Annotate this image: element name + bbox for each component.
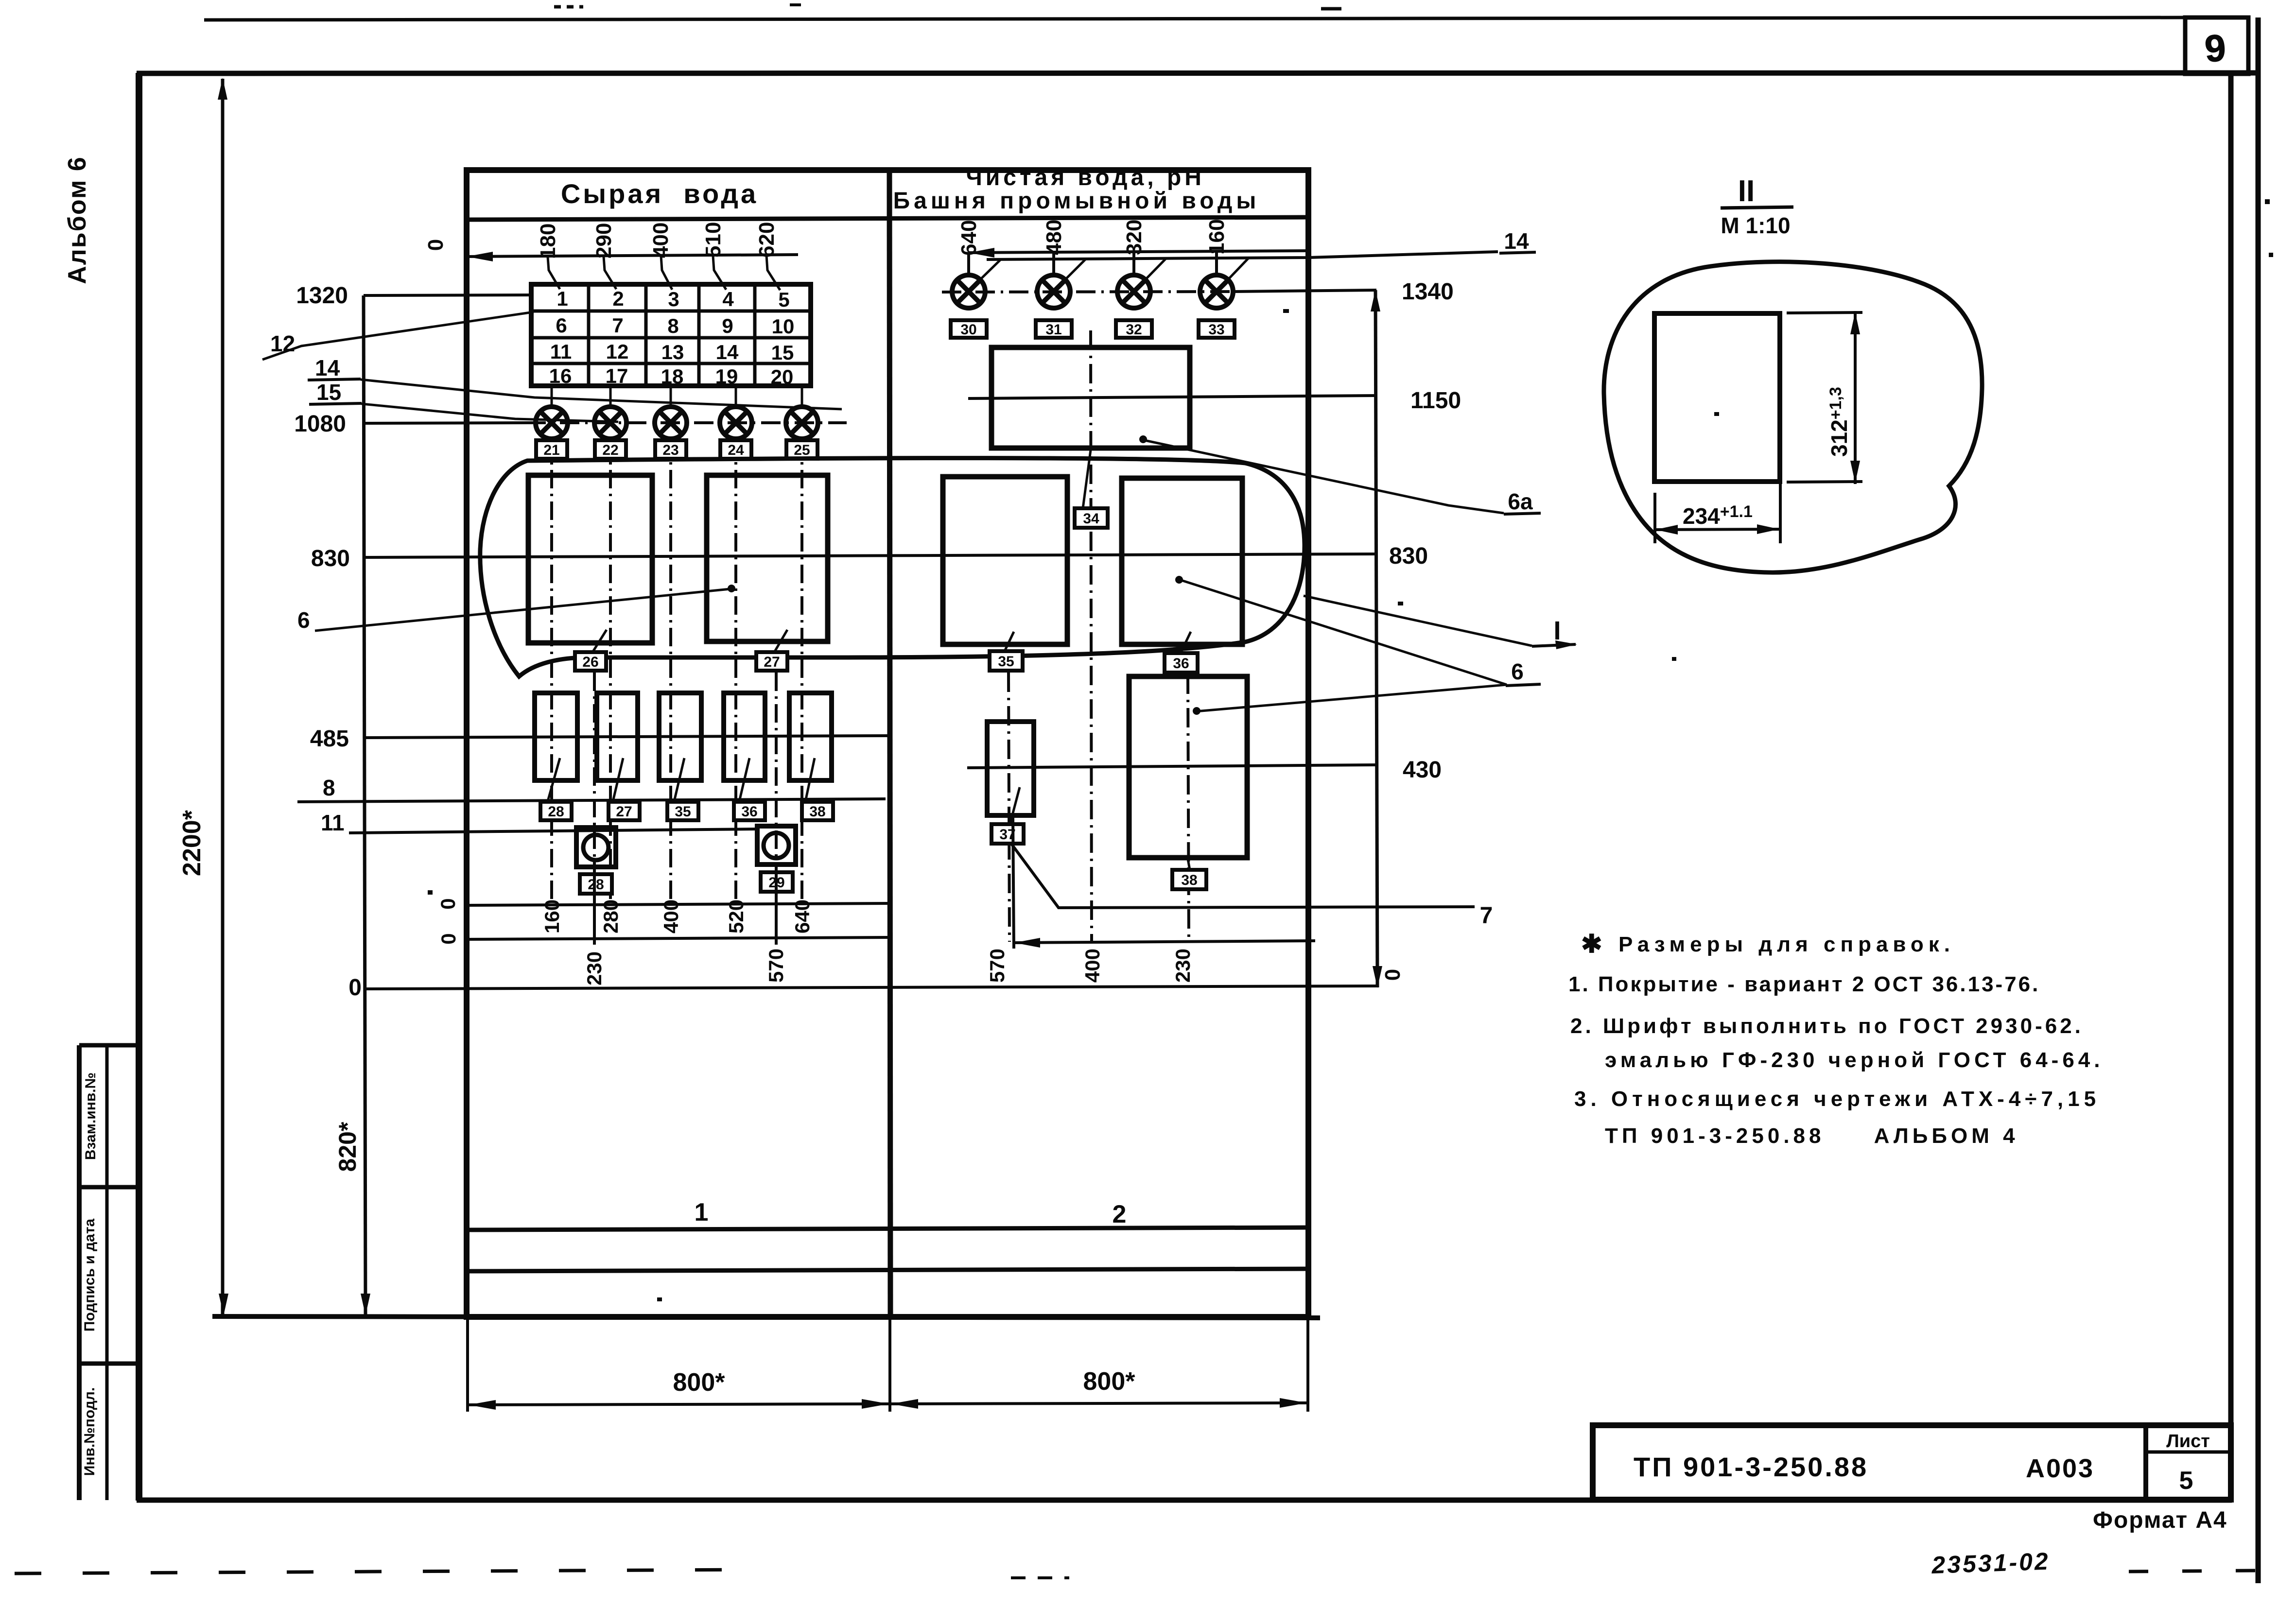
label box 37	[991, 824, 1024, 844]
rect 37	[987, 722, 1034, 815]
leader rect36 label	[1180, 632, 1191, 654]
page top border line	[204, 17, 2185, 20]
lamp L23	[655, 407, 687, 439]
ext line top	[1787, 312, 1862, 313]
svg-text:10: 10	[772, 315, 795, 338]
speck 8	[657, 1297, 662, 1301]
svg-text:0: 0	[348, 975, 362, 1001]
svg-text:1340: 1340	[1402, 279, 1454, 305]
leader 6a	[1142, 440, 1504, 513]
svg-text:830: 830	[1389, 543, 1428, 569]
bottom dim labels row1	[540, 899, 814, 985]
label box 30	[951, 320, 987, 338]
level line 0 across panels	[364, 986, 1377, 989]
small rect 4	[724, 693, 765, 780]
instrument rect 27	[707, 475, 828, 641]
leader 180 to cell1	[548, 257, 560, 289]
svg-text:830: 830	[311, 546, 350, 571]
svg-text:23531-02: 23531-02	[1931, 1548, 2050, 1579]
big oval section I	[480, 458, 1305, 676]
svg-text:3: 3	[668, 288, 679, 311]
speck 6	[1398, 602, 1403, 605]
svg-text:14: 14	[716, 341, 739, 363]
title block divider vertical	[2143, 1425, 2148, 1500]
bottom dim labels right panel	[986, 949, 1194, 983]
column centerline 3	[669, 438, 672, 905]
small rect 2	[597, 693, 638, 780]
svg-text:Размеры для справок.: Размеры для справок.	[1618, 933, 1955, 956]
label box 28a	[540, 802, 572, 820]
header band line	[467, 217, 1308, 220]
arrow I underline	[1555, 640, 1577, 649]
svg-text:7: 7	[1480, 903, 1493, 929]
label box 23	[655, 440, 686, 459]
svg-text:✱: ✱	[1581, 930, 1602, 958]
svg-text:6а: 6а	[1508, 489, 1533, 514]
svg-text:27: 27	[764, 654, 780, 670]
top scan dash 1	[554, 5, 583, 9]
label box 21	[536, 440, 567, 459]
button centerline 1	[593, 673, 596, 939]
dot 6 lower	[1193, 707, 1200, 715]
level line 1080	[364, 423, 529, 423]
column centerline 5	[800, 438, 803, 905]
arrow 800 rightend	[1280, 1398, 1307, 1408]
dim 312 vertical	[1854, 311, 1857, 484]
svg-text:15: 15	[316, 380, 341, 405]
svg-text:180: 180	[536, 224, 560, 259]
leader small rect2	[613, 758, 623, 799]
button 28 square	[576, 828, 616, 867]
svg-text:Чистая вода, рН: Чистая вода, рН	[966, 165, 1205, 190]
rect34 centerline vertical	[1091, 330, 1092, 942]
level line 485	[364, 736, 887, 738]
leader line 8	[297, 799, 886, 802]
instrument rect 26	[528, 475, 652, 643]
leader line 11	[349, 829, 757, 833]
leader rect27 label	[774, 630, 787, 653]
lamp leader diag 32	[1145, 259, 1165, 280]
leader 15 left	[362, 404, 618, 422]
right panel bottom dim line	[1014, 941, 1315, 943]
svg-text:30: 30	[960, 322, 976, 338]
underline 14 left	[308, 379, 361, 380]
label box 32	[1116, 320, 1152, 338]
svg-text:820*: 820*	[334, 1122, 361, 1172]
svg-text:25: 25	[794, 442, 810, 458]
speck 7	[1672, 657, 1676, 661]
plinth band line 1	[467, 1227, 1308, 1230]
svg-text:Взам.инв.№: Взам.инв.№	[83, 1072, 99, 1160]
svg-text:2: 2	[1113, 1200, 1127, 1228]
lamp leader diag 31	[1065, 259, 1085, 280]
svg-text:8: 8	[667, 314, 678, 337]
table verticals	[589, 284, 755, 386]
svg-text:34: 34	[1083, 511, 1099, 527]
svg-text:800*: 800*	[673, 1368, 726, 1397]
top dim labels right panel	[957, 219, 1229, 256]
lamp L21	[536, 407, 568, 439]
svg-text:11: 11	[321, 810, 345, 835]
column centerline 2	[609, 438, 612, 905]
label box 33	[1199, 320, 1235, 338]
svg-text:Формат А4: Формат А4	[2093, 1507, 2227, 1533]
column stubs table to lamps	[552, 386, 802, 406]
lamp dash line left panel	[526, 421, 847, 424]
arrow top dim left end	[467, 252, 493, 261]
bottom extension line left	[466, 1318, 469, 1412]
svg-text:16: 16	[549, 364, 572, 387]
svg-text:М 1:10: М 1:10	[1721, 213, 1790, 238]
svg-text:400: 400	[1081, 949, 1104, 983]
bottom scan dashes	[15, 1570, 758, 1573]
svg-text:2200*: 2200*	[178, 810, 206, 876]
lamp L32	[1117, 275, 1150, 308]
side column top line	[79, 1043, 139, 1048]
svg-text:570: 570	[765, 949, 787, 983]
leader 12	[262, 312, 534, 360]
svg-text:17: 17	[606, 364, 628, 387]
main frame right edge	[2228, 73, 2234, 1501]
arrow 820 bottom	[361, 1294, 370, 1315]
speck 4	[1714, 412, 1719, 416]
svg-text:0: 0	[437, 933, 460, 944]
svg-text:12: 12	[606, 340, 629, 363]
svg-text:19: 19	[715, 365, 738, 388]
svg-text:1320: 1320	[296, 283, 348, 309]
svg-text:5: 5	[2179, 1467, 2193, 1495]
svg-text:520: 520	[725, 899, 748, 933]
svg-text:6: 6	[1511, 659, 1524, 684]
svg-text:эмалью ГФ-230 черной ГОСТ 64-6: эмалью ГФ-230 черной ГОСТ 64-64.	[1605, 1048, 2104, 1072]
leader 400 to cell3	[661, 256, 672, 290]
label box 26	[575, 652, 606, 671]
lamp L30	[952, 275, 985, 308]
svg-text:1: 1	[557, 287, 568, 310]
svg-text:640: 640	[957, 220, 981, 256]
small rect 5	[789, 693, 832, 780]
arrow 800 mid-right	[891, 1399, 918, 1409]
svg-text:570: 570	[986, 949, 1009, 983]
svg-text:21: 21	[543, 442, 559, 458]
svg-text:0: 0	[436, 898, 459, 909]
bottom dim line 2 left panel	[467, 937, 890, 939]
main frame top edge	[137, 73, 2257, 73]
left dim texts	[294, 283, 362, 1001]
leader small rect5	[806, 758, 815, 799]
arrow 312 bottom	[1850, 461, 1860, 483]
arrow 800 mid-left	[862, 1399, 889, 1409]
arrow 800 leftend	[469, 1400, 496, 1410]
right dim vertical	[1375, 290, 1377, 987]
button centerline 2	[775, 673, 778, 939]
dim line 800 left	[468, 1404, 890, 1405]
leader 6 right lower	[1196, 685, 1507, 711]
floor base line	[212, 1316, 1320, 1318]
table numbers row1	[549, 287, 795, 388]
svg-text:32: 32	[1126, 322, 1142, 338]
svg-text:Инв.№подл.: Инв.№подл.	[82, 1387, 98, 1476]
lamp stub 31	[1052, 252, 1055, 275]
svg-text:36: 36	[741, 804, 757, 820]
rect37 extension	[1013, 816, 1014, 949]
centerline rect35 down	[1009, 673, 1009, 942]
svg-text:230: 230	[583, 951, 606, 985]
leader small rect4	[740, 758, 749, 799]
lamp L22	[594, 407, 626, 439]
svg-text:Сырая вода: Сырая вода	[561, 178, 758, 209]
detail rect	[1654, 313, 1780, 482]
svg-text:28: 28	[548, 804, 564, 820]
title block list divider	[2146, 1451, 2231, 1454]
speck 3	[1283, 309, 1289, 313]
button 28 circle	[583, 835, 609, 860]
svg-text:А003: А003	[2026, 1454, 2094, 1483]
ext line bottom	[1787, 482, 1862, 482]
svg-text:Башня промывной воды: Башня промывной воды	[893, 188, 1260, 214]
leader rect34 label	[1083, 450, 1091, 508]
svg-text:2. Шрифт выполнить по ГОСТ 293: 2. Шрифт выполнить по ГОСТ 2930-62.	[1570, 1014, 2084, 1038]
side column outer vertical	[77, 1045, 82, 1500]
button extension 1	[593, 867, 596, 945]
svg-text:22: 22	[602, 442, 618, 458]
svg-text:Лист: Лист	[2166, 1431, 2210, 1451]
lamp L25	[786, 407, 818, 439]
svg-text:2: 2	[612, 287, 624, 310]
bottom scan dash right	[2129, 1571, 2255, 1572]
detail blob II	[1604, 262, 1982, 572]
lamp L24	[720, 407, 752, 439]
top scan dash 3	[790, 3, 801, 6]
top scan dash 2	[1321, 7, 1341, 11]
arrow bottom dim left	[1014, 938, 1040, 948]
leader line to 14	[987, 252, 1498, 259]
svg-text:160: 160	[540, 899, 563, 933]
label box 29	[761, 872, 793, 892]
level line 1340	[1232, 290, 1376, 292]
svg-text:800*: 800*	[1083, 1367, 1136, 1396]
label box 35	[990, 651, 1023, 671]
svg-text:14: 14	[315, 355, 340, 380]
button extension 2	[775, 864, 778, 945]
svg-text:ТП 901-3-250.88: ТП 901-3-250.88	[1634, 1451, 1868, 1482]
underline 14 right	[1499, 252, 1536, 253]
leader 6 left	[315, 589, 730, 631]
svg-text:320: 320	[1122, 220, 1146, 255]
underline 6a	[1504, 513, 1541, 514]
label box 38a	[802, 802, 833, 820]
svg-text:6: 6	[297, 607, 310, 633]
lamp leader diag 30	[980, 260, 1000, 280]
arrow 2200 bottom	[219, 1294, 228, 1315]
right panel top dim line	[968, 251, 1308, 253]
svg-text:160: 160	[1205, 219, 1229, 255]
leader 7 diag	[1012, 845, 1475, 908]
svg-text:18: 18	[661, 365, 684, 388]
small rect 1	[535, 693, 577, 780]
svg-text:9: 9	[722, 314, 733, 337]
label box 34	[1075, 508, 1108, 528]
svg-text:510: 510	[701, 222, 725, 258]
svg-text:5: 5	[778, 288, 789, 311]
right dim texts	[1389, 279, 1461, 783]
svg-text:1. Покрытие - вариант 2 ОСТ 36: 1. Покрытие - вариант 2 ОСТ 36.13-76.	[1568, 972, 2040, 996]
svg-text:23: 23	[662, 442, 678, 458]
svg-text:II: II	[1738, 174, 1755, 208]
svg-text:ТП 901-3-250.88 АЛЬБОМ 4: ТП 901-3-250.88 АЛЬБОМ 4	[1605, 1124, 2019, 1148]
label box 24	[720, 440, 751, 459]
svg-text:15: 15	[771, 341, 794, 364]
leader 620 to cell5	[766, 256, 780, 290]
lamp L31	[1037, 275, 1070, 308]
leader 510 to cell4	[713, 256, 726, 290]
svg-text:27: 27	[616, 804, 632, 820]
rect 34	[991, 347, 1190, 448]
dimension line 2200 vertical	[221, 79, 225, 1315]
leader 6 right upper	[1178, 579, 1507, 685]
plinth band line 2	[467, 1269, 1308, 1271]
svg-text:35: 35	[675, 804, 691, 820]
label box 38	[1172, 870, 1206, 889]
svg-text:230: 230	[1171, 949, 1194, 983]
svg-text:8: 8	[323, 775, 335, 800]
small rect 3	[659, 693, 701, 780]
ext 234 right	[1779, 484, 1782, 543]
sheet number box	[2185, 17, 2248, 74]
arrow 234 left	[1655, 525, 1678, 535]
speck 1	[2265, 199, 2270, 204]
label box 27	[756, 652, 787, 671]
table horizontals	[531, 311, 811, 363]
leader 14 left	[361, 380, 842, 409]
side column inner vertical	[105, 1045, 109, 1500]
svg-text:0: 0	[1381, 969, 1405, 981]
lamp stub 32	[1132, 252, 1135, 275]
arrow 312 top	[1850, 312, 1860, 334]
rect 38	[1129, 676, 1247, 858]
arrow right dim bottom	[1373, 966, 1382, 988]
svg-text:280: 280	[599, 899, 622, 933]
label box 22	[595, 440, 626, 459]
svg-text:400: 400	[649, 223, 673, 258]
bottom dim line 1 left panel	[467, 903, 890, 905]
lamp stub 33	[1215, 252, 1218, 275]
dim line 800 right	[890, 1403, 1308, 1404]
leader rect37 label	[1010, 787, 1020, 824]
level line 830 across panels	[364, 554, 1376, 557]
table 1-20 outer	[531, 284, 811, 386]
leader rect35 label	[1004, 632, 1014, 652]
svg-text:430: 430	[1403, 757, 1442, 783]
left panel top dim line	[466, 255, 798, 257]
button 29 circle	[764, 833, 789, 858]
label box 28	[580, 874, 612, 894]
main frame left edge	[136, 73, 142, 1501]
svg-text:38: 38	[809, 804, 825, 820]
dot 6 upper	[1175, 576, 1183, 584]
svg-text:14: 14	[1504, 228, 1529, 254]
arrow right top dim	[969, 248, 994, 258]
underline 6 right	[1506, 684, 1541, 686]
svg-text:Подпись и дата: Подпись и дата	[82, 1218, 98, 1331]
bottom extension line right	[1306, 1318, 1309, 1412]
svg-text:Альбом 6: Альбом 6	[63, 156, 91, 284]
page right border	[2256, 17, 2261, 1583]
side column divider 2	[79, 1362, 139, 1366]
top dim labels left panel	[536, 222, 779, 259]
button 29 square	[757, 826, 796, 864]
arrow 234 right	[1757, 524, 1779, 534]
svg-text:400: 400	[660, 899, 682, 933]
svg-text:26: 26	[582, 654, 598, 670]
leader rect26 label	[592, 630, 607, 653]
svg-text:6: 6	[556, 314, 567, 337]
underline 15 left	[309, 403, 362, 404]
svg-text:620: 620	[755, 222, 779, 258]
leader small rect1	[548, 758, 560, 799]
label box 29a	[609, 802, 640, 820]
leader 6 dot	[728, 585, 735, 592]
svg-text:35: 35	[998, 654, 1014, 670]
rect 36	[1122, 478, 1242, 644]
lamp leader diag 33	[1228, 259, 1248, 280]
level line 430	[967, 765, 1376, 768]
main frame bottom edge	[137, 1498, 2232, 1503]
svg-text:11: 11	[550, 340, 572, 363]
label box 31	[1036, 320, 1072, 338]
lamp L33	[1200, 275, 1233, 308]
svg-text:290: 290	[592, 223, 616, 259]
lamp dash line right panel	[942, 292, 1232, 292]
speck 2	[2269, 253, 2273, 257]
svg-text:20: 20	[771, 365, 794, 388]
dim 234 line	[1655, 529, 1780, 530]
leader small rect3	[675, 758, 684, 799]
label box 36	[1165, 653, 1198, 673]
label box 25	[786, 440, 818, 459]
panel 1 and 2 outline	[467, 170, 1308, 1317]
svg-text:7: 7	[612, 314, 623, 337]
bottom dash cluster	[1011, 1576, 1069, 1579]
svg-text:13: 13	[661, 341, 684, 363]
svg-text:31: 31	[1045, 322, 1061, 338]
side column divider 1	[79, 1185, 139, 1190]
svg-text:1080: 1080	[294, 411, 346, 437]
svg-text:640: 640	[791, 899, 814, 933]
dimension line 820 vertical	[364, 295, 365, 1315]
arrow 2200 top	[218, 78, 227, 100]
svg-text:0: 0	[424, 239, 448, 251]
svg-text:485: 485	[310, 726, 349, 752]
ext 234 left	[1653, 493, 1656, 543]
underline I	[1532, 644, 1576, 646]
view II underline	[1721, 207, 1793, 208]
bottom extension line middle	[888, 1318, 891, 1412]
level line 1150	[968, 396, 1376, 398]
svg-text:1150: 1150	[1410, 388, 1461, 414]
rect 35	[943, 477, 1067, 644]
level line 1320	[364, 295, 532, 295]
svg-text:4: 4	[722, 288, 734, 311]
svg-text:480: 480	[1042, 220, 1066, 255]
leader 290 to cell2	[604, 257, 616, 289]
leader I	[1304, 596, 1532, 646]
dot 6a	[1139, 435, 1147, 443]
label box 35a	[667, 802, 698, 820]
arrow right dim top	[1371, 290, 1380, 311]
svg-text:9: 9	[2203, 26, 2227, 70]
column centerline 4	[734, 438, 737, 905]
